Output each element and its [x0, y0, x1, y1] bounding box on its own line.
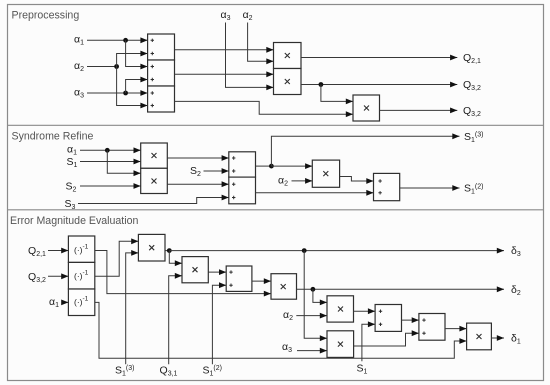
adder U8 box: [419, 314, 445, 341]
wire M5 output to adder U4 input 3: [167, 183, 229, 185]
inverter V1 box: [68, 236, 94, 262]
multiplier M5 box: [141, 168, 168, 193]
wire alpha2 to junction: [87, 66, 117, 68]
wire M8 output to adder U6 input 1: [208, 271, 226, 273]
wire M4 output to adder U4 input 1: [167, 157, 229, 159]
plus marks adder U7: [379, 310, 382, 313]
arrow at S1(3) output: [452, 133, 459, 139]
adder U4 top box: [229, 152, 256, 177]
arrow into adder U4 input 3: [222, 181, 229, 187]
junction dot after M7 output: [167, 248, 172, 253]
junction dot on alpha2 wire: [114, 64, 119, 69]
arrow into multiplier M8 input 2: [264, 291, 271, 297]
wire M10 output to adder U7 input 1: [354, 310, 376, 312]
wire S2 middle to adder U4 input 2: [204, 170, 229, 172]
arrow into adder U7 input 2: [368, 321, 375, 327]
wire alpha3 branch up to adder U2 input 2: [126, 80, 148, 94]
wire U4 bottom output to adder U5 input 2: [256, 192, 374, 194]
multiplier M4 box: [141, 143, 168, 168]
arrow into adder U4 input 1: [222, 155, 229, 161]
arrow into multiplier M11 input 1: [320, 335, 327, 341]
arrow into multiplier M1 input 1: [266, 47, 273, 53]
junction dot after U4 top output: [269, 164, 274, 169]
wire M12 output to delta1 output: [491, 337, 504, 339]
arrow at S1(2) output: [452, 185, 459, 191]
times sign M10: [338, 307, 343, 312]
times sign M5: [152, 179, 157, 184]
times sign M2: [285, 79, 290, 84]
divider line between Preprocessing and Syndrome Refine panels: [8, 124, 544, 126]
plus marks adder U3: [151, 91, 154, 94]
wire Q3,2 to inverter V2: [48, 275, 68, 277]
adder U6 box: [226, 266, 252, 291]
arrow into adder U1 input 2: [140, 51, 147, 57]
arrow into multiplier M10 input 1: [320, 300, 327, 306]
plus marks adder U6: [229, 270, 232, 273]
times sign M1: [285, 53, 290, 58]
wire M2 output to Q3,2: [301, 84, 457, 86]
wire alpha1 to multiplier M4 input 1: [80, 149, 141, 151]
times sign M12: [477, 334, 482, 339]
arrow into adder U3 input 1: [140, 90, 147, 96]
arrow into multiplier M6 input 2: [305, 178, 312, 184]
junction dot on alpha1 wire section 2: [105, 148, 110, 153]
multiplier M10 box: [327, 296, 354, 322]
wire alpha2 top down to multiplier M1 input 2: [248, 23, 274, 62]
arrow into adder U4 input 2: [222, 168, 229, 174]
adder U3 box: [148, 86, 175, 112]
arrow into adder U4 input 4: [222, 195, 229, 201]
wire alpha3 top down to multiplier M2 input 2: [226, 23, 274, 88]
wire S1(2) bottom input up to adder U6 input 2: [212, 285, 226, 364]
multiplier M7 box: [138, 234, 165, 261]
times sign M8: [193, 267, 198, 272]
wire alpha2 branch down to adder U3 input 2: [117, 67, 148, 106]
arrow into adder U8 input 1: [412, 317, 419, 323]
times sign M4: [152, 153, 157, 158]
arrow into multiplier M11 input 2: [320, 348, 327, 354]
wire alpha1 branch down to adder U2 input 1: [126, 40, 148, 66]
adder U7 box: [375, 305, 401, 332]
arrow at Q3,2 output: [450, 82, 457, 88]
multiplier M1 box: [274, 43, 302, 69]
wire alpha1 to inverter V3: [62, 301, 69, 303]
multiplier M12 box: [467, 323, 492, 350]
wire U6 output to multiplier M9 input 1: [252, 280, 271, 282]
wire delta3 junction down to multiplier M11 input 1: [304, 251, 327, 339]
inverter V2 box: [68, 262, 94, 289]
arrow into multiplier M12 input 1: [459, 326, 466, 332]
plus marks adder U8: [422, 318, 425, 321]
plus marks adder U5: [378, 179, 381, 182]
wire alpha3 to adder U3 input 1: [87, 92, 148, 94]
wire V3 output down to bottom bus: [95, 302, 467, 358]
junction dot on delta3 line: [302, 248, 307, 253]
wire S1(3) bottom input up to multiplier M7 input 2: [126, 253, 139, 364]
multiplier M6 box: [312, 160, 339, 187]
arrow into multiplier M6 input 1: [305, 163, 312, 169]
times sign M9: [281, 284, 286, 289]
plus marks adder U1: [151, 39, 154, 42]
wire adder U2 output to multiplier M2 input 1: [175, 73, 274, 75]
times sign M7: [149, 245, 154, 250]
wire S2 to multiplier M5 input 2: [80, 185, 141, 187]
wire M9 output to delta2 output: [297, 288, 505, 290]
arrow into adder U2 input 2: [140, 77, 147, 83]
arrow into inverter V1: [61, 248, 68, 254]
wire U8 output to multiplier M12 input 1: [445, 328, 467, 330]
wire V1 output down and right to multiplier M8 input 2: [95, 251, 271, 294]
plus marks adder U2: [151, 65, 154, 68]
arrow into adder U5 input 2: [366, 190, 373, 196]
arrow at delta1 output: [497, 335, 504, 341]
arrow into multiplier M7 input 2: [131, 250, 138, 256]
junction dot on M9 output: [311, 287, 316, 292]
wire M3 output to lower Q3,2: [380, 109, 458, 111]
wire alpha3 to multiplier M11 input 2: [297, 350, 327, 352]
adder U4 bottom box: [229, 177, 256, 204]
wire M2 output branch down to multiplier M3 input 1: [321, 85, 353, 102]
wire S1 to multiplier M4 input 2: [80, 161, 141, 163]
arrow into adder U1 input 1: [140, 37, 147, 43]
wire alpha1 to adder stack: [87, 39, 148, 41]
svg-text:Error Magnitude Evaluation: Error Magnitude Evaluation: [10, 215, 138, 227]
arrow into multiplier M4 input 2: [134, 159, 141, 165]
arrow into multiplier M8 input 1: [175, 260, 182, 266]
wire alpha2 to multiplier M6 input 2: [292, 180, 313, 182]
adder U1 box: [148, 34, 175, 60]
times sign M3: [364, 106, 369, 111]
junction dot on alpha1 wire: [123, 38, 128, 43]
arrow into adder U2 input 1: [140, 64, 147, 70]
arrow into multiplier M7 input 1: [131, 238, 138, 244]
wire M7 junction down to multiplier M8 input 1: [169, 251, 182, 264]
arrow into adder U6 input 1: [219, 269, 226, 275]
plus marks adder U4 bottom: [232, 183, 235, 186]
arrow into multiplier M4 input 1: [134, 147, 141, 153]
inverter V3 box: [68, 289, 94, 316]
arrow into inverter V2: [61, 273, 68, 279]
arrow into inverter V3: [61, 300, 68, 306]
adder U5 box: [374, 173, 400, 200]
multiplier M9 box: [271, 274, 297, 300]
wire M6 output to adder U5 input 1: [340, 177, 374, 182]
multiplier M11 box: [327, 331, 354, 358]
wire alpha2 to multiplier M10 input 2: [296, 315, 327, 317]
wire M11 output to adder U8 input 2: [354, 333, 419, 346]
wire V2 output up to multiplier M7 input 1: [95, 241, 139, 276]
svg-text:Preprocessing: Preprocessing: [12, 9, 80, 21]
arrow at delta2 output: [497, 286, 504, 292]
junction dot on M2 output: [319, 82, 324, 87]
multiplier M2 box: [274, 69, 302, 95]
arrow into multiplier M10 input 2: [320, 313, 327, 319]
wire alpha1 branch down to multiplier M5 input 1: [107, 150, 140, 173]
wire delta3 long line: [169, 250, 504, 252]
wire S3 to adder U4 input 4: [78, 198, 229, 204]
arrow into multiplier M2 input 1: [266, 71, 273, 77]
arrow at delta3 output: [497, 248, 504, 254]
times sign M11: [338, 342, 343, 347]
wire Q2,1 to inverter V1: [48, 250, 68, 252]
wire junction up to S1(3) output: [271, 136, 459, 166]
wire U4 top output to junction: [256, 165, 272, 167]
wire adder U3 output to multiplier M3 input 2: [175, 101, 354, 114]
adder U2 box: [148, 60, 175, 86]
wire alpha2 branch up to adder U1 input 2: [117, 54, 148, 67]
wire U7 output to adder U8 input 1: [402, 319, 419, 321]
arrow into multiplier M5 input 1: [134, 170, 141, 176]
wire junction to multiplier M6 input 1: [271, 165, 312, 167]
junction dot on alpha3 wire: [123, 91, 128, 96]
wire M9 junction down to multiplier M10 input 1: [313, 289, 327, 302]
arrow into adder U7 input 1: [368, 308, 375, 314]
plus marks adder U4 top: [232, 156, 235, 159]
arrow into adder U6 input 2: [219, 282, 226, 288]
arrow into multiplier M3 input 1: [346, 99, 353, 105]
wire U5 output to S1(2) output: [400, 187, 460, 189]
arrow into multiplier M1 input 2: [266, 58, 273, 64]
multiplier M3 box: [353, 95, 380, 121]
arrow into multiplier M3 input 2: [346, 111, 353, 117]
wire adder U1 output to multiplier M1 input 1: [175, 49, 274, 51]
wire M7 output to junction: [165, 250, 169, 252]
arrow at lower Q3,2 output: [450, 108, 457, 114]
arrow into adder U5 input 1: [366, 178, 373, 184]
times sign M6: [323, 171, 328, 176]
arrow into multiplier M2 input 2: [266, 85, 273, 91]
wire S1 bottom input up to adder U7 input 2: [362, 324, 375, 361]
arrow into multiplier M12 input 2: [459, 338, 466, 344]
arrow at Q2,1 output: [450, 55, 457, 61]
divider line between Syndrome Refine and Error Magnitude Evaluation panels: [8, 209, 544, 211]
arrow into multiplier M9 input 1: [264, 278, 271, 284]
multiplier M8 box: [182, 257, 208, 283]
arrow into adder U3 input 2: [140, 103, 147, 109]
svg-text:Syndrome Refine: Syndrome Refine: [12, 131, 94, 143]
arrow into multiplier M8 upper input 2: [175, 273, 182, 279]
arrow into multiplier M5 input 2: [134, 183, 141, 189]
arrow into adder U8 input 2: [412, 330, 419, 336]
wire M1 output to Q2,1: [301, 57, 457, 59]
wire Q3,1 bottom input up to multiplier M8 input 2 upper: [169, 276, 182, 364]
